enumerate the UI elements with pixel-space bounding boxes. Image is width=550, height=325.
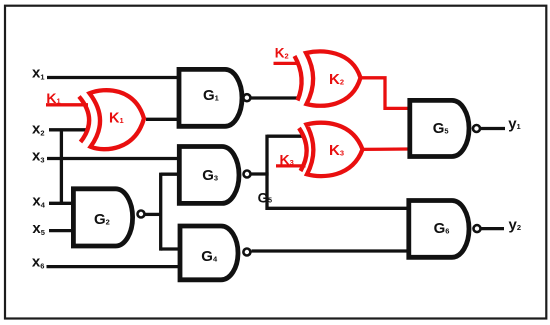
- wire G2 output to riser: [145, 213, 161, 216]
- NAND gate G1: [179, 69, 250, 126]
- svg-text:x2: x2: [32, 121, 45, 138]
- wire riser G2 vertical: [159, 173, 162, 251]
- wire G4 output to G6: [252, 249, 412, 252]
- svg-text:x3: x3: [32, 148, 45, 165]
- NAND gate G5: [410, 100, 480, 156]
- XOR gate K2: [295, 51, 361, 105]
- svg-text:G5: G5: [258, 190, 273, 205]
- wire XOR K1 output to G1: [146, 118, 180, 121]
- wire x5 to G2: [49, 229, 75, 232]
- wire XOR K3 output to G5: [361, 147, 409, 151]
- wire XOR K2 output to G5: [359, 78, 409, 109]
- wire riser to G4 top input: [161, 247, 181, 250]
- NAND gate G3: [179, 147, 250, 204]
- svg-text:x6: x6: [32, 254, 45, 271]
- XOR gate K3: [299, 123, 363, 176]
- wire x3 to G3: [47, 157, 180, 160]
- svg-text:x1: x1: [32, 65, 45, 82]
- wire G1 output to XOR K2: [251, 96, 300, 99]
- wire node G3 vertical: [265, 135, 268, 210]
- NAND gate G6: [409, 201, 481, 258]
- svg-text:x4: x4: [32, 192, 45, 209]
- NAND gate G2: [73, 189, 144, 246]
- wire K3 input to XOR K3: [276, 164, 306, 167]
- wire K2 input to XOR K2: [274, 62, 298, 65]
- svg-text:K2: K2: [275, 46, 289, 61]
- NAND gate G4: [180, 226, 250, 280]
- wire K1 input to XOR K1: [46, 103, 88, 106]
- wire x1 to G1: [47, 76, 180, 79]
- wire G3 output to node: [252, 172, 269, 175]
- wire x6 to G4: [47, 265, 181, 268]
- svg-text:y2: y2: [509, 217, 522, 234]
- wire node to G6 top input: [267, 207, 411, 210]
- XOR gate K1: [79, 90, 144, 149]
- wire x4 to G2: [49, 202, 75, 205]
- svg-text:y1: y1: [508, 116, 521, 133]
- wire G6 output: [481, 227, 504, 230]
- wire G5 output: [481, 127, 505, 130]
- wire riser to G3 lower input: [161, 173, 181, 176]
- wire node to XOR K3 top input: [267, 135, 304, 138]
- wire x2 to XOR K1: [49, 128, 88, 131]
- svg-text:x5: x5: [32, 220, 45, 237]
- wire x2 riser down to x4 line: [60, 130, 63, 204]
